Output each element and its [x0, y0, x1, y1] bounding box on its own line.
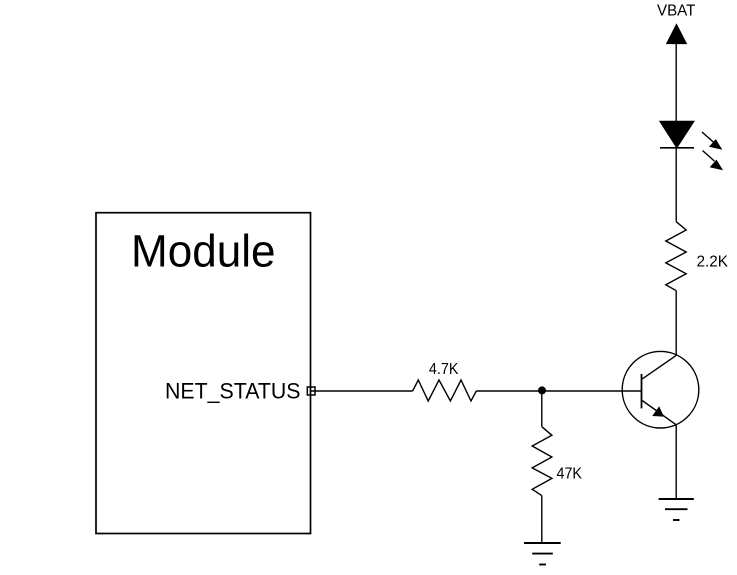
- LED D1: [660, 121, 694, 148]
- resistor R3 2.2K: [666, 222, 686, 291]
- wire: node down to R2: [541, 390, 543, 426]
- wire: Q1 emitter down to ground: [675, 425, 677, 499]
- power symbol VBAT arrow: [667, 24, 687, 43]
- LED light arrow 1: [702, 132, 722, 150]
- wire: Q1 collector up to R3: [675, 291, 677, 356]
- ground (below R2): [524, 543, 561, 565]
- svg-text:VBAT: VBAT: [657, 2, 696, 19]
- wire: R2 to ground: [541, 496, 543, 543]
- wire: LED to VBAT arrow: [675, 44, 677, 122]
- svg-text:2.2K: 2.2K: [697, 253, 729, 270]
- module block U1: [96, 213, 311, 534]
- wire: pin to R1: [310, 390, 413, 392]
- wire: R1 to node: [476, 390, 542, 392]
- LED light arrow 2: [703, 151, 724, 171]
- svg-text:Module: Module: [131, 226, 276, 277]
- resistor R2 47K: [532, 427, 552, 496]
- junction node: [538, 386, 546, 394]
- ground (below Q1 emitter): [659, 499, 694, 520]
- pin NET_STATUS terminal square: [307, 387, 315, 395]
- wire: R3 up to LED D1: [675, 148, 677, 222]
- svg-text:NET_STATUS: NET_STATUS: [165, 378, 301, 403]
- svg-text:47K: 47K: [557, 465, 583, 482]
- transistor Q1: [622, 351, 699, 428]
- wire: node to Q1 base: [542, 390, 642, 392]
- svg-text:4.7K: 4.7K: [429, 361, 459, 378]
- resistor R1 4.7K: [413, 380, 477, 401]
